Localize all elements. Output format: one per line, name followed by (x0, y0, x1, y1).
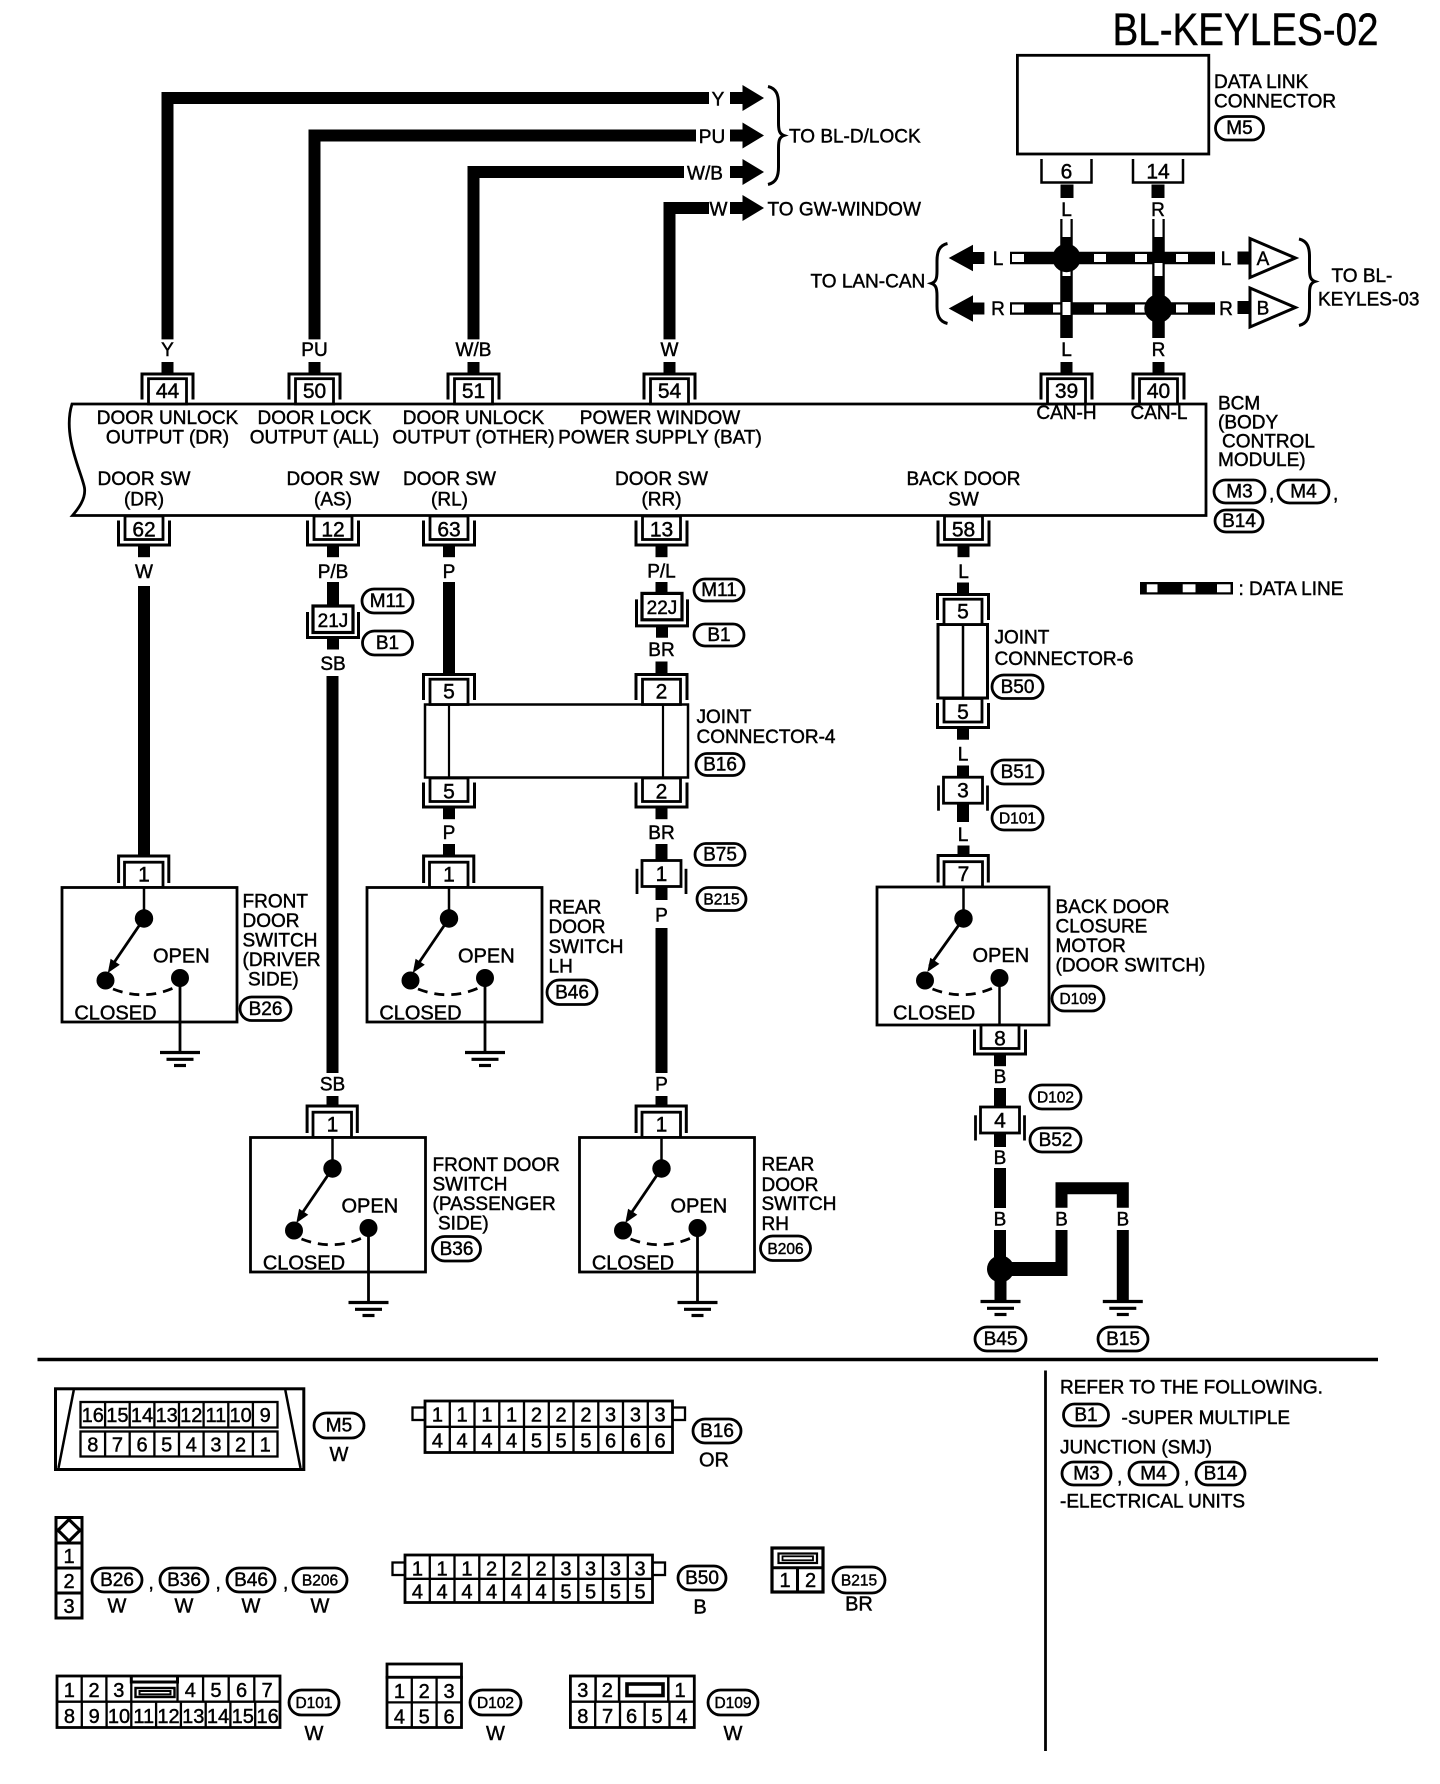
svg-text:CONNECTOR-4: CONNECTOR-4 (697, 727, 836, 748)
svg-text:54: 54 (658, 380, 682, 403)
svg-text:(DOOR SWITCH): (DOOR SWITCH) (1056, 956, 1206, 977)
svg-text:DATA LINK: DATA LINK (1214, 72, 1309, 93)
svg-text:5: 5 (585, 1582, 596, 1604)
connector label B36 (433, 1237, 481, 1262)
svg-text:8: 8 (64, 1706, 75, 1728)
svg-text:B50: B50 (685, 1568, 719, 1589)
data line legend (1140, 582, 1233, 595)
svg-text:B: B (994, 1148, 1007, 1169)
connector view 3-pin (door switches) (56, 1518, 82, 1619)
svg-text:7: 7 (112, 1435, 123, 1457)
svg-text:9: 9 (89, 1706, 100, 1728)
stub before triangle B (1238, 301, 1251, 314)
svg-text:(RL): (RL) (431, 490, 468, 511)
svg-text:B206: B206 (302, 1573, 338, 1590)
svg-text:W: W (330, 1444, 349, 1466)
svg-text:W: W (710, 200, 728, 221)
svg-text:L: L (958, 825, 969, 846)
svg-text:4: 4 (676, 1706, 687, 1728)
svg-text:TO BL-D/LOCK: TO BL-D/LOCK (789, 127, 921, 148)
svg-text:7: 7 (262, 1680, 273, 1702)
svg-text:4: 4 (457, 1431, 468, 1453)
wire from junction to B15 branch (1001, 1262, 1062, 1276)
svg-text:P: P (655, 1075, 668, 1096)
BCM pin 39 (1041, 362, 1092, 404)
connector view D101 (57, 1676, 280, 1728)
svg-text:4: 4 (486, 1582, 497, 1604)
connector label B215 (view) (833, 1567, 885, 1593)
svg-text:5: 5 (610, 1582, 621, 1604)
svg-text:5: 5 (210, 1680, 221, 1702)
ground (LH switch) (484, 978, 487, 1053)
svg-text:SWITCH: SWITCH (762, 1194, 837, 1215)
svg-text:8: 8 (577, 1706, 588, 1728)
svg-text:W: W (305, 1723, 324, 1745)
svg-text:B1: B1 (376, 633, 399, 654)
svg-text:(RR): (RR) (641, 490, 681, 511)
svg-text:3: 3 (610, 1559, 621, 1581)
svg-text:5: 5 (419, 1707, 430, 1729)
svg-text:Y: Y (712, 90, 725, 111)
svg-text:1: 1 (64, 1680, 75, 1702)
svg-text:TO BL-: TO BL- (1332, 266, 1393, 287)
junction dot L (1052, 244, 1080, 272)
BCM pin 12 (308, 516, 359, 557)
svg-text:2: 2 (602, 1680, 613, 1702)
svg-text:4: 4 (186, 1435, 197, 1457)
svg-text:4: 4 (394, 1707, 405, 1729)
svg-text:B: B (994, 1067, 1007, 1088)
connector label M11 (21J) (362, 589, 413, 613)
svg-text:DOOR: DOOR (243, 911, 300, 932)
svg-text:14: 14 (131, 1405, 153, 1427)
svg-text:JUNCTION (SMJ): JUNCTION (SMJ) (1060, 1438, 1212, 1459)
svg-text:R: R (1151, 200, 1165, 221)
wire W (670, 208, 710, 339)
svg-text:W: W (311, 1596, 330, 1618)
svg-text:B16: B16 (703, 755, 737, 776)
svg-text:BR: BR (648, 823, 674, 844)
connector label D101 (view) (289, 1690, 339, 1715)
connector label D101 (inline) (992, 806, 1043, 830)
wire P (B75 to rear door switch RH) (656, 887, 668, 901)
svg-text:R: R (991, 299, 1005, 320)
svg-text:7: 7 (958, 863, 970, 886)
svg-text:3: 3 (635, 1559, 646, 1581)
svg-text:A: A (1257, 249, 1270, 270)
svg-text:OR: OR (699, 1450, 729, 1472)
svg-text:M4: M4 (1140, 1464, 1167, 1485)
connector label B14 (1215, 510, 1263, 532)
svg-text:,: , (283, 1573, 288, 1594)
svg-text:REAR: REAR (762, 1155, 815, 1176)
connector label B1 (refer) (1064, 1404, 1109, 1426)
svg-text:CAN-L: CAN-L (1130, 403, 1187, 424)
connector label B36 (view) (160, 1568, 208, 1592)
connector label B206 (view) (293, 1568, 347, 1592)
arrow left L row (949, 245, 985, 271)
svg-text:P: P (443, 823, 456, 844)
svg-text:13: 13 (156, 1405, 178, 1427)
svg-text:58: 58 (952, 519, 975, 542)
svg-text:M3: M3 (1073, 1464, 1099, 1485)
svg-text:M11: M11 (370, 591, 406, 612)
svg-text:FRONT: FRONT (243, 892, 309, 913)
svg-text:(AS): (AS) (314, 490, 352, 511)
svg-text:11: 11 (133, 1706, 154, 1728)
svg-text:,: , (1333, 484, 1338, 505)
svg-text:11: 11 (206, 1405, 227, 1427)
svg-text:1: 1 (461, 1559, 472, 1581)
svg-text:DOOR SW: DOOR SW (98, 469, 191, 490)
connector view B215 (772, 1548, 823, 1592)
BCM pin 40 (1133, 362, 1184, 404)
back door closure motor (door switch) D109 (938, 856, 988, 883)
svg-text:(DR): (DR) (124, 490, 164, 511)
svg-text:D102: D102 (477, 1695, 514, 1712)
svg-text:5: 5 (531, 1431, 542, 1453)
BCM pin 51 (448, 362, 499, 404)
svg-text:13: 13 (182, 1706, 204, 1728)
svg-text:2: 2 (656, 681, 668, 704)
svg-text:M5: M5 (326, 1416, 352, 1437)
ground B15 (1103, 1302, 1143, 1315)
svg-text:L: L (1061, 340, 1072, 361)
connector label B75 (695, 844, 745, 866)
svg-text:,: , (216, 1573, 221, 1594)
svg-text:3: 3 (957, 780, 969, 803)
svg-text:SIDE): SIDE) (248, 970, 299, 991)
connector label B16 (696, 754, 744, 776)
connector label B46 (547, 980, 597, 1005)
svg-text:4: 4 (506, 1431, 517, 1453)
svg-text:W: W (724, 1723, 743, 1745)
svg-text:REAR: REAR (549, 898, 602, 919)
svg-text:8: 8 (87, 1435, 98, 1457)
svg-text:2: 2 (486, 1559, 497, 1581)
svg-text:W: W (661, 340, 679, 361)
inline connector pin 3 (B51/D101) (939, 777, 988, 811)
connector 22J (642, 593, 682, 619)
svg-text:4: 4 (994, 1110, 1006, 1133)
svg-text:B: B (693, 1597, 706, 1619)
svg-text:4: 4 (432, 1431, 443, 1453)
svg-text:2: 2 (511, 1559, 522, 1581)
svg-text:RH: RH (762, 1214, 789, 1235)
svg-text:B75: B75 (703, 845, 737, 866)
svg-text:DOOR: DOOR (762, 1175, 819, 1196)
arrow left R row (949, 295, 985, 321)
svg-text:,: , (149, 1573, 154, 1594)
connector view M5 (56, 1389, 304, 1470)
svg-text:6: 6 (236, 1680, 247, 1702)
svg-text:M11: M11 (701, 580, 737, 601)
connector label M4 (refer) (1129, 1462, 1178, 1485)
svg-text:3: 3 (63, 1596, 74, 1618)
svg-text:B50: B50 (1001, 677, 1035, 698)
svg-text:B206: B206 (767, 1241, 803, 1258)
wire Y (168, 98, 710, 339)
connector label B51 (992, 760, 1043, 784)
svg-text:P: P (443, 562, 456, 583)
connector label B52 (inline) (1030, 1128, 1081, 1152)
svg-text:12: 12 (157, 1706, 179, 1728)
svg-text:CONNECTOR-6: CONNECTOR-6 (995, 649, 1134, 670)
svg-text:KEYLES-03: KEYLES-03 (1318, 290, 1419, 311)
svg-text:5: 5 (652, 1706, 663, 1728)
BCM pin 13 (636, 516, 687, 557)
svg-text:,: , (1184, 1467, 1189, 1488)
rear door switch LH B46 (367, 856, 542, 1025)
svg-text:50: 50 (303, 380, 326, 403)
svg-text:B36: B36 (440, 1239, 474, 1260)
svg-text:B16: B16 (700, 1421, 734, 1442)
svg-text:OUTPUT (OTHER): OUTPUT (OTHER) (392, 428, 554, 449)
connector label D102 (view) (470, 1690, 521, 1715)
svg-text:W: W (175, 1596, 194, 1618)
svg-text:SW: SW (948, 490, 979, 511)
svg-text:POWER SUPPLY (BAT): POWER SUPPLY (BAT) (558, 428, 762, 449)
svg-text:D102: D102 (1037, 1090, 1074, 1107)
stub before triangle A (1238, 252, 1251, 265)
JC-6 pin 5 top (938, 583, 989, 625)
svg-text:5: 5 (957, 601, 969, 624)
svg-text:DOOR SW: DOOR SW (615, 469, 708, 490)
svg-text:B: B (1116, 1210, 1129, 1231)
connector label B14 (refer) (1196, 1462, 1245, 1485)
svg-text:-ELECTRICAL UNITS: -ELECTRICAL UNITS (1060, 1492, 1245, 1513)
svg-text:1: 1 (779, 1570, 790, 1592)
connector view D109 (570, 1676, 694, 1728)
svg-text:OUTPUT (DR): OUTPUT (DR) (106, 428, 229, 449)
connector label B1 (22J) (694, 624, 744, 646)
svg-text:5: 5 (443, 781, 455, 804)
svg-text:2: 2 (656, 781, 668, 804)
svg-text:5: 5 (556, 1431, 567, 1453)
svg-text:5: 5 (580, 1431, 591, 1453)
ground B45 (981, 1302, 1021, 1315)
connector view B50 (393, 1555, 666, 1604)
data line horizontal R (CAN) (1010, 302, 1215, 315)
svg-text:15: 15 (106, 1405, 128, 1427)
BCM pin 63 (424, 516, 475, 557)
svg-text:3: 3 (560, 1559, 571, 1581)
svg-text:3: 3 (655, 1405, 666, 1427)
svg-text:2: 2 (531, 1405, 542, 1427)
svg-text:12: 12 (180, 1405, 202, 1427)
arrow row W/B (730, 159, 764, 185)
svg-text:10: 10 (229, 1405, 251, 1427)
wire L (pin 3 to back door closure motor) (957, 803, 969, 822)
svg-text:6: 6 (443, 1707, 454, 1729)
svg-text:,: , (1117, 1467, 1122, 1488)
brace TO BL-KEYLES-03 (1299, 239, 1315, 326)
svg-text:TO LAN-CAN: TO LAN-CAN (811, 272, 926, 293)
svg-text:JOINT: JOINT (995, 628, 1050, 649)
connector label B16 (view) (693, 1419, 741, 1443)
ground (passenger switch) (367, 1228, 370, 1303)
svg-text:1: 1 (656, 863, 668, 886)
svg-text:4: 4 (185, 1680, 196, 1702)
svg-text:CLOSED: CLOSED (893, 1003, 975, 1025)
svg-text:CONNECTOR: CONNECTOR (1214, 92, 1336, 113)
svg-text:6: 6 (605, 1431, 616, 1453)
svg-text:4: 4 (437, 1582, 448, 1604)
svg-text:9: 9 (260, 1405, 271, 1427)
svg-text:6: 6 (1061, 161, 1073, 184)
svg-text:BL-KEYLES-02: BL-KEYLES-02 (1113, 4, 1379, 55)
svg-text:2: 2 (580, 1405, 591, 1427)
JC-4 pin 5 bottom (424, 778, 475, 819)
DLC pin 6 (1042, 159, 1092, 183)
svg-text:Y: Y (161, 340, 174, 361)
svg-text:D109: D109 (1059, 991, 1096, 1008)
svg-text:P: P (655, 906, 668, 927)
svg-text:DOOR SW: DOOR SW (287, 469, 380, 490)
svg-text:10: 10 (108, 1706, 130, 1728)
svg-text:FRONT DOOR: FRONT DOOR (433, 1155, 560, 1176)
data line vertical L (CAN-H) (1060, 219, 1073, 338)
svg-text:1: 1 (394, 1681, 405, 1703)
vertical divider (1044, 1371, 1047, 1752)
svg-text:DOOR SW: DOOR SW (403, 469, 496, 490)
svg-text:7: 7 (602, 1706, 613, 1728)
svg-text:5: 5 (560, 1582, 571, 1604)
svg-text:B52: B52 (1039, 1130, 1073, 1151)
wire PU (315, 136, 697, 340)
svg-text:L: L (958, 745, 969, 766)
svg-text:13: 13 (650, 519, 673, 542)
svg-text:1: 1 (457, 1405, 468, 1427)
front door switch (passenger side) B36 (251, 1106, 426, 1275)
svg-text:6: 6 (630, 1431, 641, 1453)
connector label B206 (761, 1236, 811, 1261)
svg-text:JOINT: JOINT (697, 707, 752, 728)
BCM pin 54 (644, 362, 695, 404)
svg-text:DOOR LOCK: DOOR LOCK (257, 408, 371, 429)
svg-text:4: 4 (461, 1582, 472, 1604)
svg-text:TO GW-WINDOW: TO GW-WINDOW (768, 200, 921, 221)
brace TO BL-D/LOCK (768, 87, 784, 185)
svg-text:W: W (242, 1596, 261, 1618)
junction dot R (1144, 294, 1172, 322)
BCM box (body control module) (69, 404, 1206, 516)
svg-text:1: 1 (260, 1435, 271, 1457)
svg-text:L: L (993, 249, 1004, 270)
svg-text:R: R (1152, 340, 1166, 361)
svg-text:2: 2 (88, 1680, 99, 1702)
svg-text:5: 5 (957, 701, 969, 724)
svg-text:1: 1 (481, 1405, 492, 1427)
svg-text:W/B: W/B (456, 340, 492, 361)
svg-text:1: 1 (506, 1405, 517, 1427)
svg-text:SWITCH: SWITCH (243, 931, 318, 952)
svg-text:BR: BR (845, 1594, 873, 1616)
svg-text:P/L: P/L (647, 562, 676, 583)
svg-text:3: 3 (443, 1681, 454, 1703)
ground (RH switch) (696, 1228, 699, 1303)
svg-text:D101: D101 (295, 1695, 332, 1712)
rear door switch RH B206 (580, 1106, 755, 1275)
svg-text:1: 1 (432, 1405, 443, 1427)
svg-text:W/B: W/B (687, 164, 723, 185)
svg-text:M3: M3 (1226, 482, 1252, 503)
svg-text:3: 3 (577, 1680, 588, 1702)
svg-text:B215: B215 (841, 1573, 877, 1590)
svg-text:2: 2 (419, 1681, 430, 1703)
svg-text:BR: BR (648, 640, 674, 661)
svg-text:B26: B26 (249, 999, 283, 1020)
data line horizontal L (CAN) (1010, 252, 1215, 265)
svg-text:L: L (1221, 249, 1232, 270)
svg-text:L: L (958, 562, 969, 583)
connector label M3 (refer) (1062, 1462, 1111, 1485)
svg-text:2: 2 (556, 1405, 567, 1427)
svg-text:DOOR: DOOR (549, 917, 606, 938)
svg-text:2: 2 (63, 1571, 74, 1593)
svg-text:16: 16 (82, 1405, 104, 1427)
triangle B (1250, 288, 1296, 327)
BCM pin 44 (142, 362, 193, 404)
arrow row W (TO GW-WINDOW) (730, 195, 764, 221)
svg-text:MODULE): MODULE) (1218, 450, 1306, 471)
svg-text:62: 62 (132, 519, 155, 542)
svg-text:63: 63 (437, 519, 460, 542)
svg-text:39: 39 (1055, 380, 1078, 403)
separator line (38, 1358, 1379, 1362)
svg-text:2: 2 (536, 1559, 547, 1581)
svg-text:16: 16 (256, 1706, 278, 1728)
svg-text:B: B (1055, 1210, 1068, 1231)
svg-text:D101: D101 (999, 811, 1036, 828)
svg-text:B14: B14 (1222, 511, 1256, 532)
connector label B26 (view) (92, 1568, 142, 1592)
wire junction to ground B45 (995, 1269, 1007, 1300)
svg-text:21J: 21J (318, 611, 349, 632)
JC-6 pin 5 bottom (938, 699, 989, 740)
wire W/B (474, 172, 685, 339)
svg-text:3: 3 (210, 1435, 221, 1457)
BCM pin 50 (289, 362, 340, 404)
svg-text:1: 1 (63, 1546, 74, 1568)
svg-text:14: 14 (207, 1706, 229, 1728)
svg-text:,: , (1269, 484, 1274, 505)
svg-text:1: 1 (412, 1559, 423, 1581)
JC-4 pin 5 top (424, 663, 475, 705)
svg-text:6: 6 (655, 1431, 666, 1453)
svg-text:15: 15 (232, 1706, 254, 1728)
connector label D102 (inline) (1030, 1085, 1081, 1109)
svg-text:DOOR UNLOCK: DOOR UNLOCK (97, 408, 239, 429)
svg-text:44: 44 (156, 380, 180, 403)
svg-text:2: 2 (235, 1435, 246, 1457)
svg-text:51: 51 (462, 380, 485, 403)
inline connector pin 1 (B75/B215) (637, 861, 686, 895)
svg-text:B: B (994, 1210, 1007, 1231)
svg-text:M5: M5 (1226, 118, 1252, 139)
svg-text:4: 4 (412, 1582, 423, 1604)
svg-text:SB: SB (320, 654, 345, 675)
connector 21J (313, 606, 353, 633)
svg-text:REFER TO THE FOLLOWING.: REFER TO THE FOLLOWING. (1060, 1378, 1323, 1399)
BCM pin 62 (119, 516, 170, 557)
connector label B50 (view) (678, 1566, 726, 1590)
svg-text:OPEN: OPEN (973, 945, 1030, 967)
svg-text:LH: LH (549, 957, 573, 978)
arrow row PU (730, 123, 764, 149)
svg-text:POWER WINDOW: POWER WINDOW (580, 408, 740, 429)
connector label B46 (view) (227, 1568, 275, 1592)
